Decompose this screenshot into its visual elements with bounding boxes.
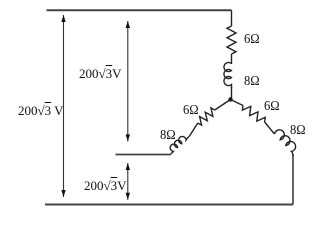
arrow bottom 200√3V double-headed [127, 163, 129, 200]
resistor 6Ω (right branch) [242, 106, 265, 123]
label 8Ω right [290, 124, 306, 137]
label 6Ω right [264, 100, 280, 113]
wire top horizontal [47, 9, 232, 11]
resistor 6Ω (top branch) [227, 26, 236, 54]
arrow left 200√3V double-headed [63, 15, 65, 197]
wire node to right resistor [231, 100, 244, 106]
wire right vertical down [292, 154, 294, 205]
wire middle horizontal [116, 154, 172, 156]
label 8Ω left [160, 129, 176, 142]
wire node to left resistor [215, 100, 231, 111]
label 200√3 V (left source) [18, 103, 64, 119]
inductor 8Ω (left branch) [170, 136, 189, 154]
label 200√3 V (bottom source) [84, 178, 127, 194]
arrow middle 200√3V double-headed [127, 21, 129, 141]
node (star point) [228, 97, 232, 101]
wire right resistor to right inductor [265, 122, 275, 134]
wire between top resistor and top inductor [231, 54, 233, 64]
inductor 8Ω (top branch) [224, 62, 232, 88]
label 8Ω top [244, 75, 260, 88]
wire bottom horizontal [45, 204, 293, 206]
label 6Ω top [244, 33, 260, 46]
wire from top inductor to node [231, 87, 233, 100]
label 6Ω left [183, 104, 199, 117]
resistor 6Ω (left branch) [198, 108, 215, 125]
label 200√3 V (middle source) [79, 66, 122, 82]
inductor 8Ω (right branch) [275, 130, 296, 156]
wire right stub from top wire down to resistor [231, 10, 233, 26]
wire left resistor to left inductor [190, 123, 198, 136]
